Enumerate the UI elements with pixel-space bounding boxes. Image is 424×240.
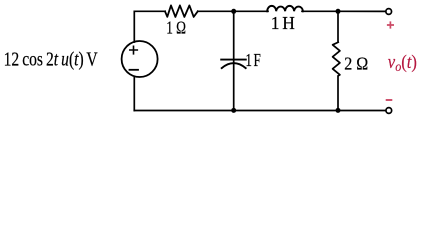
node D junction dot	[336, 108, 341, 113]
svg-text:1 H: 1 H	[271, 13, 295, 33]
voltage source VS circle	[122, 41, 158, 77]
wire top-left vertical and top rail to resistor	[134, 11, 165, 42]
wire R1 to node A	[198, 10, 234, 12]
inductor L1	[267, 6, 303, 11]
svg-text:12 cos 2t u(t) V: 12 cos 2t u(t) V	[4, 48, 98, 70]
top terminal circle	[386, 9, 392, 15]
svg-text:1 F: 1 F	[245, 51, 261, 70]
wire node B down to resistor R2	[337, 11, 339, 41]
bottom rail wire	[134, 110, 385, 112]
plus sign inside source	[130, 46, 138, 54]
node C junction dot	[231, 108, 236, 113]
node A junction dot	[231, 9, 236, 14]
node B junction dot	[336, 9, 341, 14]
output plus sign	[387, 21, 394, 28]
resistor R2	[333, 42, 340, 76]
svg-text:vo(t): vo(t)	[388, 51, 417, 74]
resistor R1	[165, 5, 198, 17]
bottom terminal circle	[386, 108, 392, 114]
wire node A down to capacitor	[233, 11, 235, 110]
output minus sign	[386, 99, 393, 101]
minus sign inside source	[130, 69, 139, 71]
wire node B to top terminal	[338, 10, 385, 12]
wire R2 to node D	[337, 77, 339, 111]
capacitor C1	[221, 60, 246, 69]
wire node A to inductor	[234, 10, 268, 12]
svg-text:2 Ω: 2 Ω	[344, 54, 368, 74]
wire source bottom vertical	[133, 77, 135, 111]
svg-text:1 Ω: 1 Ω	[166, 19, 186, 38]
wire L1 to node B	[302, 10, 338, 12]
